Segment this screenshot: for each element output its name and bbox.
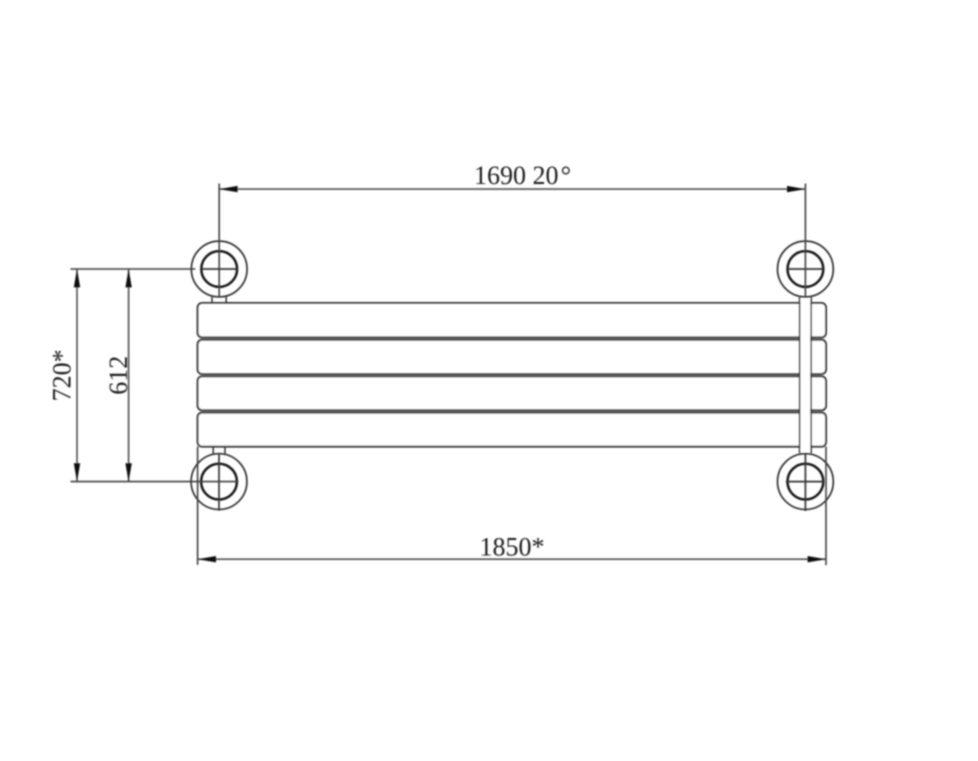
arrow left of dimension 1850 bbox=[198, 556, 216, 562]
bench slat 2 bbox=[198, 340, 826, 374]
svg-text:1850*: 1850* bbox=[480, 532, 545, 561]
extension line top-right (1690 dim, through circle) bbox=[804, 184, 806, 298]
extension line bottom-right (1850 dim) bbox=[825, 447, 827, 566]
top-left leg post bbox=[212, 297, 226, 303]
arrow left of dimension 1690 bbox=[219, 186, 237, 192]
bottom-left circle vertical crosshair bbox=[218, 453, 220, 510]
arrow bottom of dimension 720 bbox=[74, 463, 80, 481]
right support bar fill (covers slat gaps) bbox=[801, 299, 811, 452]
bottom-right circle vertical crosshair bbox=[804, 453, 806, 511]
right support bar left edge bbox=[799, 298, 801, 454]
extension line left-bottom (720/612 dims, through circle) bbox=[71, 481, 239, 483]
bench slat 3 bbox=[198, 376, 826, 410]
arrow right of dimension 1850 bbox=[808, 556, 826, 562]
extension line top-left (1690 dim, through circle) bbox=[218, 184, 220, 298]
svg-text:612: 612 bbox=[104, 356, 133, 395]
svg-text:1690 20 °: 1690 20 ° bbox=[474, 161, 571, 190]
arrow bottom of dimension 612 bbox=[125, 463, 131, 481]
bottom-right leg outer circle bbox=[778, 454, 834, 510]
svg-text:720*: 720* bbox=[48, 349, 77, 401]
extension line left-top (720/612 dims, toward circle) bbox=[71, 268, 196, 270]
top-right leg outer circle bbox=[778, 241, 834, 297]
bottom-left leg inner circle bbox=[201, 464, 237, 500]
arrow right of dimension 1690 bbox=[787, 186, 805, 192]
top-left circle horizontal crosshair bbox=[202, 268, 239, 270]
bottom-left leg post bbox=[213, 447, 225, 454]
dimension line 720 bbox=[76, 269, 78, 482]
bottom-right leg inner circle bbox=[788, 464, 824, 500]
dimension line 1850 bbox=[198, 558, 826, 560]
bench slat 1 (top) bbox=[198, 303, 826, 337]
top-right circle horizontal crosshair bbox=[787, 268, 823, 270]
bottom-right circle horizontal crosshair bbox=[786, 481, 824, 483]
extension line bottom-left (1850 dim) bbox=[197, 447, 199, 565]
top-left leg inner circle bbox=[201, 251, 237, 287]
arrow top of dimension 612 bbox=[125, 269, 131, 287]
right support bar right edge bbox=[810, 298, 812, 454]
top-right leg inner circle bbox=[788, 251, 824, 287]
top-left leg outer circle bbox=[191, 241, 247, 297]
dimension line 1690 bbox=[219, 188, 805, 190]
arrow top of dimension 720 bbox=[74, 269, 80, 287]
dimension line 612 bbox=[128, 269, 130, 482]
bench slat 4 (bottom) bbox=[198, 413, 826, 447]
bottom-left leg outer circle bbox=[191, 454, 247, 510]
